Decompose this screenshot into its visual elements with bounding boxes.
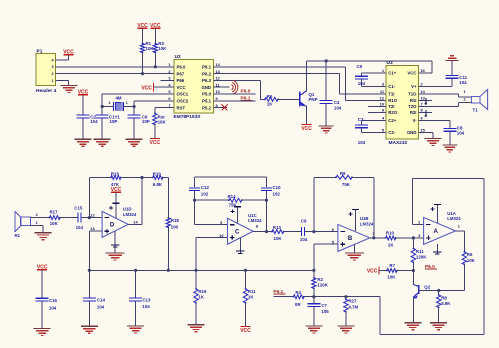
junction R8 tap	[437, 289, 440, 292]
svg-text:2: 2	[463, 98, 465, 102]
signal-ground arcs at pin11	[231, 80, 238, 94]
svg-text:GND: GND	[201, 85, 211, 90]
svg-text:P6.3: P6.3	[202, 78, 211, 83]
power stub U1A bottom	[433, 244, 441, 254]
svg-text:VCC: VCC	[407, 71, 416, 76]
power VCC below Q1	[301, 125, 312, 133]
svg-text:10K: 10K	[50, 221, 59, 226]
power stub U1A top	[431, 204, 441, 223]
svg-text:R9: R9	[340, 171, 346, 176]
svg-text:6.8K: 6.8K	[153, 182, 163, 187]
wire VCC to R7	[379, 270, 387, 272]
junction R1-row2	[141, 72, 144, 75]
op-amp U1D	[90, 207, 138, 238]
wire R3 to row1	[154, 53, 156, 67]
wire Q2 emitter	[412, 297, 414, 323]
junction R3-row1	[154, 65, 157, 68]
svg-text:U1B: U1B	[360, 216, 369, 221]
svg-text:7: 7	[421, 102, 423, 107]
wire R1 to row2	[142, 53, 144, 74]
junction output U1C	[265, 230, 268, 233]
svg-text:10K: 10K	[158, 119, 167, 124]
svg-text:1K: 1K	[198, 295, 204, 300]
svg-text:GND: GND	[407, 130, 417, 135]
svg-text:1: 1	[36, 221, 38, 225]
resistor R3 10K	[153, 41, 167, 54]
svg-text:C5: C5	[357, 64, 363, 69]
junction crystal left	[101, 105, 104, 108]
svg-text:LM324: LM324	[447, 216, 461, 221]
junction R18-bus	[167, 269, 170, 272]
svg-text:P66: P66	[177, 78, 185, 83]
svg-text:LM324: LM324	[248, 218, 262, 223]
capacitor C8 104	[443, 120, 464, 145]
capacitor C2 104	[77, 90, 99, 140]
wire rail C right	[242, 199, 267, 201]
svg-text:U2: U2	[175, 54, 181, 60]
IC U3 MAX232	[380, 60, 426, 146]
junction rail A	[140, 176, 143, 179]
resistor R2 120K	[312, 270, 329, 289]
svg-text:102: 102	[201, 191, 209, 196]
resistor R1 10K	[140, 41, 154, 54]
svg-text:VCC: VCC	[177, 85, 186, 90]
capacitor C4 104	[320, 61, 342, 126]
svg-text:104: 104	[76, 225, 84, 230]
resistor R10 1K	[385, 231, 397, 248]
svg-text:U3: U3	[387, 60, 393, 66]
svg-text:C15: C15	[74, 206, 83, 211]
wire P1 pin3 row	[56, 66, 174, 68]
svg-text:10P: 10P	[142, 119, 150, 124]
svg-text:T1I: T1I	[388, 92, 394, 97]
resistor R7 10K	[386, 263, 398, 280]
wire R17 to C15	[60, 217, 76, 219]
svg-text:VCC: VCC	[240, 328, 251, 334]
power VCC above R1	[137, 23, 148, 44]
ground below U1D	[106, 253, 125, 260]
wire Q1 emitter down	[306, 107, 308, 125]
wire R16 to gnd	[195, 303, 197, 325]
junction pin12 node	[88, 216, 91, 219]
ground below C16	[34, 328, 51, 335]
svg-text:C2+: C2+	[388, 118, 396, 123]
wire U3 pin6 V-	[419, 119, 450, 121]
wire R7 to junction	[397, 270, 413, 272]
svg-text:C12: C12	[201, 185, 210, 190]
svg-text:LM324: LM324	[123, 212, 137, 217]
wire U3 pin10 stub	[368, 105, 386, 107]
junction P6.1 node	[312, 295, 315, 298]
svg-text:1: 1	[463, 90, 465, 94]
ground below C8	[442, 145, 457, 152]
capacitor C1Y1 10P	[96, 107, 121, 140]
ground below U3 pin15	[425, 138, 442, 145]
wire pin2 loop	[412, 179, 423, 225]
svg-text:T2I: T2I	[388, 104, 394, 109]
svg-text:R27: R27	[348, 298, 357, 303]
wire R27 to gnd	[345, 312, 347, 326]
svg-text:104: 104	[459, 80, 467, 85]
svg-text:R11: R11	[248, 289, 256, 294]
wire pin10 feed	[196, 238, 228, 271]
svg-text:T2O: T2O	[408, 104, 417, 109]
wire Q2 base row	[419, 290, 465, 292]
wire U3 pin9 stub	[368, 112, 386, 114]
wire R15 to junction	[121, 177, 142, 179]
wire U2 pin11 stub	[214, 86, 230, 88]
svg-text:R6: R6	[467, 252, 473, 257]
power VCC to U1D V+	[111, 187, 122, 203]
wire R1I stub	[419, 98, 433, 105]
net label P6.0 (U2)	[241, 89, 253, 95]
svg-text:V-: V-	[412, 118, 417, 123]
svg-text:C16: C16	[49, 298, 58, 303]
svg-text:B: B	[348, 236, 353, 242]
microphone R1	[14, 211, 37, 238]
svg-text:1: 1	[126, 101, 128, 105]
ground below P1 pin1	[61, 85, 78, 92]
svg-text:R10: R10	[386, 231, 395, 236]
svg-text:7: 7	[372, 231, 374, 236]
svg-text:R5: R5	[267, 94, 273, 99]
svg-text:2: 2	[109, 101, 111, 105]
svg-text:T1: T1	[472, 107, 478, 112]
wire crystal left	[102, 106, 113, 108]
capacitor C5 104	[355, 64, 368, 87]
wire R9 rail	[314, 176, 336, 178]
resistor R17 10K	[49, 209, 61, 226]
capacitor C12 102	[189, 177, 210, 200]
power VCC above R3	[150, 23, 161, 44]
wire T1O to speaker	[419, 94, 472, 97]
svg-text:C10: C10	[273, 185, 282, 190]
svg-text:R15: R15	[111, 171, 120, 176]
wire C15 to U1D	[82, 217, 102, 219]
svg-text:C1-: C1-	[388, 84, 395, 89]
wire U1B out	[370, 237, 386, 239]
resistor R11b 1K	[243, 270, 256, 304]
resistor R6 10K	[462, 251, 476, 265]
svg-text:100: 100	[171, 225, 179, 230]
svg-text:104: 104	[334, 105, 342, 110]
svg-text:104: 104	[142, 304, 150, 309]
power VCC above C16	[37, 265, 48, 271]
svg-text:C3: C3	[358, 117, 364, 122]
svg-text:EM78P153S: EM78P153S	[174, 114, 202, 120]
resistor Rst 10K	[153, 113, 167, 126]
junction bus right	[312, 269, 315, 272]
svg-text:R17: R17	[50, 209, 59, 214]
power stub U1D bottom	[111, 231, 119, 254]
wire R4 to node	[304, 296, 314, 298]
inverted ground above C11	[446, 56, 459, 61]
power VCC below R11b	[240, 303, 251, 334]
capacitor C9 104	[300, 218, 308, 242]
ground below mic	[35, 233, 52, 240]
svg-text:C2-: C2-	[388, 130, 395, 135]
wire U1D out up	[141, 178, 143, 225]
capacitor C15 104	[74, 206, 83, 231]
power VCC at R7	[367, 266, 379, 274]
wire VCC rail top	[307, 61, 432, 73]
svg-text:VCC: VCC	[150, 140, 161, 146]
resistor R11 120K	[411, 238, 427, 263]
wire rail A left	[89, 177, 111, 179]
capacitor C6 10P	[128, 107, 150, 140]
capacitor C10 102	[261, 177, 281, 200]
wire U3 pin2 V+	[419, 86, 453, 88]
wire rail B	[195, 176, 267, 178]
svg-text:R13: R13	[273, 225, 282, 230]
svg-text:P6.1: P6.1	[202, 65, 211, 70]
wire U2.13 to U3.11	[227, 74, 386, 94]
wire U3 pin15 GND	[419, 133, 434, 139]
svg-text:1K: 1K	[267, 101, 273, 106]
capacitor C16 104	[36, 270, 58, 329]
power VCC above P1	[63, 50, 74, 61]
svg-text:C9: C9	[301, 218, 307, 223]
svg-text:P5.1: P5.1	[202, 99, 211, 104]
svg-text:MAX232: MAX232	[389, 140, 408, 146]
svg-text:104: 104	[97, 305, 105, 310]
svg-text:V+: V+	[411, 84, 417, 89]
svg-text:C14: C14	[97, 298, 106, 303]
svg-text:C1+: C1+	[388, 71, 396, 76]
wire mic pin2	[30, 217, 49, 219]
power stub U1C bottom	[236, 238, 244, 253]
wire R9 rail right	[352, 177, 374, 238]
ground below R27	[337, 326, 354, 333]
resistor R8 5.9K	[437, 291, 452, 309]
svg-text:120K: 120K	[416, 255, 427, 260]
svg-text:7: 7	[168, 103, 170, 108]
ground below C2	[75, 139, 92, 146]
wire R8 to gnd	[438, 307, 440, 322]
svg-text:R8: R8	[441, 295, 447, 300]
wire RST	[155, 108, 161, 114]
wire rail A right	[163, 178, 169, 218]
svg-text:104: 104	[457, 131, 465, 136]
svg-text:10K: 10K	[158, 46, 167, 51]
wire C9 to U1B	[306, 231, 338, 233]
svg-text:R19: R19	[153, 171, 162, 176]
wire P1 pin1	[56, 80, 69, 85]
resistor R27 4.7M	[344, 297, 359, 313]
svg-text:VCC: VCC	[367, 269, 378, 275]
svg-text:1K: 1K	[248, 295, 254, 300]
wire crystal right	[123, 101, 134, 107]
net label P6.1	[273, 289, 285, 295]
resistor R9 75K	[335, 171, 353, 187]
svg-text:Header 4: Header 4	[36, 88, 57, 94]
wire right loop	[483, 179, 485, 335]
wire U1A out	[456, 231, 465, 252]
junction bus left	[88, 269, 91, 272]
crystal Y1 4M	[109, 95, 128, 111]
wire pin13 down to bus	[88, 231, 90, 270]
power stub U1B top	[349, 209, 359, 231]
wire U1D pin13	[89, 230, 102, 232]
svg-text:P1: P1	[37, 49, 43, 55]
wire C10 to output	[266, 200, 268, 231]
net label P6.1 (U2)	[241, 96, 253, 102]
op-amp U1C	[219, 213, 262, 244]
wire pin5 feed	[314, 244, 338, 270]
wire top loop rail	[412, 178, 484, 180]
transistor Q2	[413, 271, 431, 299]
svg-text:R1I: R1I	[410, 98, 417, 103]
wire R18 to bus	[167, 227, 169, 270]
junction rail C left	[193, 199, 196, 202]
svg-text:Q2: Q2	[424, 284, 430, 289]
wire rail A mid	[142, 177, 153, 179]
svg-text:R1: R1	[14, 233, 20, 238]
no-connect X at U2 pin8	[222, 105, 228, 111]
wire mic pin1 to gnd	[30, 226, 43, 233]
svg-text:RST: RST	[177, 105, 186, 110]
ground below R16	[188, 325, 205, 332]
svg-text:PNP: PNP	[309, 97, 318, 102]
junction crystal right	[133, 105, 136, 108]
power VCC at U2 pin4	[141, 83, 160, 91]
svg-text:R16: R16	[198, 289, 207, 294]
junction rail C right	[265, 199, 268, 202]
ground below Q2	[404, 323, 421, 330]
svg-text:A: A	[434, 229, 439, 235]
wire pin9 stub	[214, 100, 256, 102]
svg-text:OSC1: OSC1	[177, 92, 189, 97]
capacitor C13 104	[129, 270, 151, 326]
resistor R4 0R	[293, 290, 305, 307]
svg-text:C13: C13	[142, 298, 151, 303]
svg-text:102: 102	[273, 191, 281, 196]
svg-text:104: 104	[358, 140, 366, 145]
svg-text:C7: C7	[321, 303, 327, 308]
wire OSC1	[102, 94, 160, 107]
svg-text:1: 1	[51, 79, 53, 83]
wire OSC2	[134, 100, 160, 102]
wire U1D output	[128, 223, 142, 225]
svg-text:2: 2	[51, 72, 53, 76]
svg-text:104: 104	[90, 119, 98, 124]
power VCC below Rst	[150, 125, 161, 147]
wire R11 to P6.0 row	[412, 262, 414, 270]
resistor R19 6.8K	[152, 171, 164, 187]
junction R9 drop	[312, 230, 315, 233]
svg-text:R7: R7	[389, 263, 395, 268]
svg-text:10K: 10K	[387, 275, 396, 280]
svg-text:105: 105	[321, 309, 329, 314]
junction C4 tap	[325, 59, 328, 62]
ground below C14	[81, 326, 98, 333]
svg-text:10K: 10K	[467, 258, 476, 263]
ground below C13	[127, 326, 144, 333]
junction R9 out	[372, 236, 375, 239]
connector P1 (Header 4)	[36, 49, 57, 94]
resistor R18 100	[166, 217, 179, 230]
svg-text:5.9K: 5.9K	[441, 301, 451, 306]
svg-text:1K: 1K	[388, 243, 394, 248]
resistor R14 75K	[228, 194, 243, 207]
power stub U1D top	[109, 203, 119, 218]
transistor Q1 PNP	[300, 91, 318, 107]
svg-text:R11: R11	[416, 249, 424, 254]
capacitor C3 104	[355, 117, 368, 145]
svg-text:3: 3	[51, 65, 53, 69]
wire U2.14 to U3.12	[227, 67, 386, 101]
svg-text:120K: 120K	[317, 283, 328, 288]
wire bias bus	[89, 269, 314, 271]
svg-text:75K: 75K	[342, 182, 351, 187]
svg-text:104: 104	[300, 237, 308, 242]
svg-text:R2: R2	[317, 277, 323, 282]
svg-text:104: 104	[358, 81, 366, 86]
wire rail C left	[195, 199, 229, 201]
power stub U1B bottom	[353, 245, 355, 253]
resistor R13 10K	[271, 225, 284, 241]
junction R11 tap	[412, 236, 415, 239]
svg-text:U1D: U1D	[123, 207, 132, 212]
wire bottom loop	[380, 297, 484, 335]
wire R2 down	[313, 288, 315, 296]
junction P6.0 node	[412, 269, 415, 272]
svg-text:104: 104	[49, 306, 57, 311]
wire U3 pin1 stub	[362, 72, 387, 74]
wire P6.1 row	[273, 296, 293, 298]
net label P6.0	[425, 264, 437, 270]
svg-text:10: 10	[216, 89, 220, 94]
junction bus C13	[134, 269, 137, 272]
ground below C4	[319, 126, 334, 133]
wire R2I stub	[419, 110, 433, 117]
svg-text:VCC: VCC	[141, 85, 152, 91]
svg-text:VCC: VCC	[301, 126, 312, 132]
svg-text:P5.2: P5.2	[202, 105, 211, 110]
wire U3 pin4 stub	[362, 119, 387, 121]
svg-text:4.7M: 4.7M	[348, 304, 358, 309]
svg-text:P6.2: P6.2	[202, 71, 211, 76]
power stub U1C top	[231, 207, 241, 224]
svg-text:R4: R4	[295, 290, 301, 295]
wire T2O to speaker	[419, 102, 472, 106]
wire U3 pin16	[419, 72, 432, 74]
resistor R5 1K	[264, 94, 279, 107]
capacitor C14 104	[83, 270, 106, 326]
svg-text:4M: 4M	[115, 95, 121, 100]
wire P1 pin4 to VCC	[56, 59, 69, 61]
wire U1C output	[253, 231, 272, 233]
wire node to loop	[314, 296, 380, 298]
svg-text:0R: 0R	[295, 302, 301, 307]
svg-text:R1O: R1O	[388, 98, 397, 103]
wire pin10 stub	[214, 93, 256, 95]
svg-text:P6.0: P6.0	[177, 65, 186, 70]
svg-text:R2O: R2O	[388, 110, 397, 115]
svg-text:2: 2	[36, 213, 38, 217]
svg-text:C: C	[235, 230, 240, 236]
svg-text:R18: R18	[171, 218, 180, 223]
wire R13 to C9	[284, 231, 300, 233]
wire pin12 node up	[88, 178, 90, 218]
wire pin9 feed	[195, 200, 228, 225]
op-amp U1A	[418, 211, 461, 245]
speaker T1	[472, 90, 488, 113]
junction bus R11b	[244, 269, 247, 272]
wire R10 to U1A	[396, 237, 424, 239]
svg-text:P67: P67	[177, 71, 185, 76]
resistor R16 1K	[194, 270, 207, 304]
